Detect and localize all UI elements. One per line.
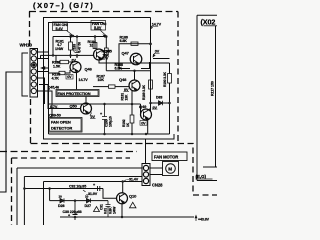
- resistor R182: [69, 61, 73, 63]
- svg-text:CN28: CN28: [152, 183, 163, 188]
- node dot on bus: [149, 43, 152, 46]
- wire pin2: [38, 58, 49, 60]
- 0V bus x150.5: [150, 18, 152, 112]
- connector CN28 body: [142, 164, 150, 186]
- inner vertical in right box: [215, 26, 217, 167]
- svg-text:14.7V: 14.7V: [79, 78, 89, 82]
- svg-text:C30 220μ63: C30 220μ63: [63, 210, 82, 214]
- transistor Q48: [129, 80, 140, 91]
- connector CN28 pins: [143, 165, 148, 183]
- wire into bracket: [0, 72, 22, 192]
- resistor R181: [70, 37, 72, 56]
- svg-text:+: +: [93, 183, 95, 187]
- node dots y104: [103, 103, 133, 106]
- wire pin5: [38, 78, 45, 104]
- svg-text:–31.4V: –31.4V: [127, 178, 139, 182]
- R182 feed: [56, 55, 60, 62]
- node dots mid rail: [52, 54, 79, 57]
- capacitor C190: [102, 104, 107, 134]
- branch down to diode row: [49, 189, 51, 201]
- wire pin4: [38, 71, 49, 73]
- label box FAN ON: 5.0V: [91, 21, 106, 38]
- wire in right box: [203, 166, 217, 168]
- node dot Q10 collector: [121, 180, 124, 183]
- Q50 base wire: [49, 108, 81, 110]
- connector WH10 pins: [31, 49, 36, 93]
- svg-text:FAN OPEN: FAN OPEN: [51, 120, 71, 125]
- svg-text:10K: 10K: [98, 78, 105, 82]
- Q49 emitter down: [145, 118, 148, 134]
- bottom ground rail: [60, 216, 194, 218]
- svg-text:1/4W: 1/4W: [113, 206, 117, 214]
- svg-text:+: +: [100, 112, 102, 116]
- 0V boxed label: [66, 75, 73, 80]
- svg-text:0.47 50: 0.47 50: [78, 42, 82, 53]
- capacitor C30: [73, 201, 78, 220]
- svg-text:10: 10: [59, 195, 63, 199]
- connector WH10 body: [30, 49, 38, 98]
- svg-text:FAN PROTECTION: FAN PROTECTION: [58, 91, 91, 96]
- node dots rail4: [23, 187, 51, 190]
- bottom rail 3: [44, 182, 143, 226]
- Q48 collector wire: [134, 71, 136, 80]
- motor M circle: [166, 164, 176, 174]
- warning triangle Q10: [130, 202, 137, 208]
- wire pin6: [39, 85, 50, 109]
- dashed bottom boundary inner: [12, 158, 131, 225]
- svg-text:0V: 0V: [141, 121, 146, 125]
- svg-text:Q46: Q46: [85, 67, 93, 72]
- right section box (X02: [197, 15, 217, 180]
- svg-text:R190 3.3K: R190 3.3K: [163, 71, 167, 87]
- svg-text:1/4W: 1/4W: [55, 47, 64, 51]
- svg-text:6.8K: 6.8K: [115, 66, 123, 70]
- node dots ground rail: [103, 133, 147, 136]
- capacitor C32: [98, 186, 100, 191]
- resistor R190 column: [169, 63, 171, 74]
- bottom rail 4: [24, 189, 116, 199]
- resistor R183: [49, 72, 60, 74]
- FAN OPEN DETECTOR box: [49, 118, 83, 133]
- svg-text:DETECTOR: DETECTOR: [51, 126, 72, 131]
- resistor R192: [131, 104, 133, 115]
- 0V boxed at Q49 emitter: [140, 121, 147, 126]
- wire pin3 arrow: [42, 67, 49, 69]
- inner solid board box left/top: [49, 23, 104, 135]
- FAN MOTOR label box: [152, 152, 187, 161]
- resistor R189 on bus: [149, 80, 153, 89]
- svg-text:13K: 13K: [125, 94, 129, 100]
- capacitor C183: [75, 37, 80, 59]
- capacitor C31: [106, 201, 111, 217]
- svg-text:D28: D28: [58, 204, 65, 208]
- svg-text:1.5K: 1.5K: [53, 64, 61, 68]
- node dots D83 wire: [149, 102, 171, 105]
- Q47 loop wiring: [119, 44, 151, 69]
- svg-text:(X07–) (G/7): (X07–) (G/7): [33, 1, 94, 10]
- transistor Q45: [94, 49, 105, 60]
- diode D28: [60, 198, 64, 202]
- svg-text:100μ16: 100μ16: [109, 116, 113, 127]
- svg-text:R117 150: R117 150: [211, 81, 215, 96]
- svg-text:4.7K: 4.7K: [52, 76, 60, 80]
- svg-text:Q49-50: Q49-50: [49, 114, 61, 118]
- wire rail y70.7: [106, 70, 150, 72]
- transistor Q50: [81, 103, 92, 114]
- bottom rail 1: [17, 168, 142, 225]
- resistor R185: [105, 37, 107, 49]
- middle rail 0V row: [38, 55, 94, 58]
- Q10 emitter: [121, 204, 123, 217]
- Q46 emitter drop: [76, 73, 78, 90]
- resistor R187: [93, 86, 109, 88]
- motor wires: [150, 168, 163, 175]
- rail corner down to mid rail: [52, 37, 54, 56]
- svg-text:0V: 0V: [67, 75, 72, 79]
- svg-text:Q45,46: Q45,46: [48, 86, 60, 90]
- connector mating bracket: [22, 53, 28, 96]
- svg-text:C32 10μ35: C32 10μ35: [69, 184, 86, 188]
- FAN PROTECTION box: [56, 90, 99, 97]
- wire pin1: [38, 51, 49, 53]
- svg-text:6.8K: 6.8K: [120, 39, 128, 43]
- svg-text:Q48: Q48: [119, 77, 127, 82]
- svg-text:Q50: Q50: [70, 104, 78, 109]
- diode row rail: [50, 200, 108, 202]
- diode D27: [87, 198, 91, 202]
- svg-text:R189 3.3K: R189 3.3K: [142, 84, 146, 100]
- node dots on top rail: [69, 35, 107, 38]
- svg-text:0.01: 0.01: [104, 208, 108, 214]
- dashed section boundary left edge: [29, 12, 31, 47]
- svg-text:14.7V: 14.7V: [152, 23, 162, 27]
- Q48 emitter wire: [131, 90, 133, 104]
- dashed link to lower-right section: [178, 144, 217, 196]
- Q49 collector to bus: [148, 103, 151, 110]
- outer solid board box: [44, 18, 175, 140]
- fan motor unit box: [163, 162, 179, 176]
- svg-text:Q47: Q47: [122, 51, 130, 56]
- node dot: [74, 199, 77, 202]
- wire to CN28 from box: [145, 139, 147, 164]
- svg-text:10: 10: [85, 195, 89, 199]
- label box FAN ON: 5.4V: [53, 22, 74, 37]
- warning triangle bottom mid: [94, 207, 100, 212]
- svg-text:C183: C183: [73, 44, 77, 52]
- svg-text:+43.8V: +43.8V: [198, 218, 210, 222]
- transistor Q47: [130, 53, 142, 65]
- resistor R186: [131, 42, 138, 45]
- wire from bus to R190 column: [153, 58, 170, 60]
- bottom rail 2: [24, 177, 142, 226]
- transistor Q49: [141, 109, 152, 120]
- top supply rail: [53, 36, 107, 38]
- detector row wire y104: [49, 104, 141, 115]
- svg-text:Q10: Q10: [129, 194, 137, 199]
- svg-text:WH10: WH10: [20, 43, 33, 48]
- Q50 collector stub: [85, 97, 87, 104]
- dashed bottom boundary outer: [0, 151, 137, 153]
- dashed section boundary top edge: [29, 11, 178, 13]
- transistor Q10: [117, 193, 128, 204]
- diode D83: [151, 102, 170, 104]
- ground rail y134: [49, 133, 170, 135]
- Q45-Q46 coupling wire: [99, 60, 170, 63]
- svg-text:D83: D83: [156, 96, 162, 100]
- node dot: [74, 216, 124, 219]
- svg-text:(E,G): (E,G): [196, 174, 207, 179]
- Q10 collector: [122, 182, 124, 193]
- svg-text:M: M: [168, 167, 172, 172]
- wire pin7: [38, 91, 53, 118]
- dashed section boundary right edge: [177, 12, 179, 144]
- svg-text:FAN MOTOR: FAN MOTOR: [154, 155, 178, 160]
- svg-text:D27: D27: [85, 204, 92, 208]
- svg-text:(X02: (X02: [201, 18, 216, 27]
- transistor Q46: [70, 62, 81, 73]
- dashed section boundary left edge lower: [30, 99, 32, 143]
- resistor R184: [94, 37, 96, 50]
- dashed section boundary bottom edge: [31, 143, 179, 145]
- node dot: [133, 42, 152, 71]
